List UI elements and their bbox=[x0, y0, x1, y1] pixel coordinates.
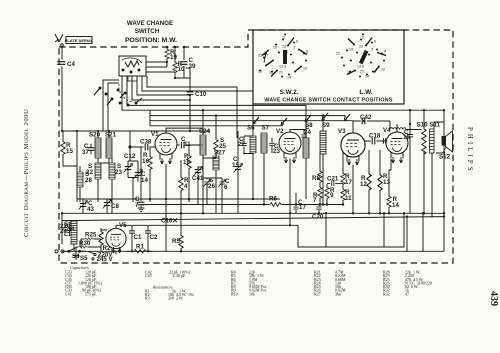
capacitor C22 bbox=[238, 136, 247, 155]
svg-text:S.W.2.: S.W.2. bbox=[280, 89, 299, 96]
coil S23 bbox=[109, 163, 122, 203]
capacitor C11 bbox=[177, 136, 191, 148]
capacitor C17 bbox=[293, 199, 306, 213]
wire fan L5 bbox=[127, 76, 306, 131]
wire fan L3 bbox=[137, 76, 190, 95]
resistor R1 bbox=[127, 244, 152, 254]
svg-text:S12: S12 bbox=[439, 154, 451, 161]
valve V3 bbox=[338, 121, 365, 165]
resistor R8 bbox=[312, 152, 322, 186]
valve V2 bbox=[276, 128, 306, 163]
resistor R20 bbox=[173, 47, 185, 78]
svg-text:21: 21 bbox=[360, 70, 364, 74]
resistor R25 bbox=[81, 232, 101, 241]
resistor R14 bbox=[387, 159, 400, 213]
wire bus y225.3 bbox=[116, 213, 404, 247]
resistor R9 bbox=[325, 184, 335, 205]
svg-text:23: 23 bbox=[115, 169, 122, 176]
variable capacitor C8 bbox=[103, 200, 120, 214]
svg-text:R32: R32 bbox=[383, 291, 390, 296]
node dots on coil bus bbox=[61, 130, 191, 132]
svg-text:16: 16 bbox=[142, 158, 149, 165]
svg-text:S20: S20 bbox=[89, 132, 101, 139]
svg-text:22: 22 bbox=[238, 141, 245, 148]
resistor R19 bbox=[165, 47, 178, 62]
coil S22 bbox=[86, 163, 101, 202]
variable capacitor C15 bbox=[232, 131, 243, 178]
svg-text:C38: C38 bbox=[140, 139, 152, 146]
wire fan L7 bbox=[150, 110, 345, 118]
svg-text:18: 18 bbox=[183, 159, 190, 166]
svg-text:8: 8 bbox=[306, 50, 308, 54]
svg-text:37: 37 bbox=[82, 149, 89, 156]
wire bus y199 bbox=[77, 198, 280, 200]
wire bottom loop bbox=[326, 213, 423, 251]
svg-text:SWITCH: SWITCH bbox=[135, 28, 160, 35]
wire tube columns bbox=[83, 148, 432, 255]
wire heater V5 bbox=[61, 236, 63, 244]
svg-text:S21: S21 bbox=[105, 132, 117, 139]
svg-text:V4: V4 bbox=[383, 127, 391, 134]
capacitor C16 bbox=[161, 218, 177, 225]
capacitor C7 bbox=[135, 147, 144, 211]
svg-text:4: 4 bbox=[184, 183, 188, 190]
svg-text:13: 13 bbox=[279, 65, 283, 69]
resistor R7 bbox=[313, 186, 322, 205]
capacitor C10 bbox=[187, 68, 207, 131]
capacitor C39 bbox=[181, 47, 196, 71]
svg-text:C21: C21 bbox=[327, 176, 339, 183]
resistor R6 bbox=[258, 196, 288, 207]
resistor R30 bbox=[76, 240, 101, 248]
svg-text:S5: S5 bbox=[80, 255, 88, 262]
L.W. contact pattern bbox=[336, 34, 386, 79]
svg-text:C2: C2 bbox=[150, 234, 158, 241]
wire HT top bus bbox=[150, 110, 444, 129]
svg-text:S9: S9 bbox=[322, 122, 330, 129]
svg-text:R5: R5 bbox=[172, 238, 180, 245]
capacitor C18 bbox=[365, 133, 387, 145]
svg-text:C1: C1 bbox=[134, 234, 142, 241]
svg-text:18: 18 bbox=[347, 71, 351, 75]
svg-text:17: 17 bbox=[299, 204, 306, 211]
dashed page border bbox=[59, 30, 453, 263]
coil S9 bbox=[320, 122, 330, 168]
coil S24 bbox=[199, 128, 211, 167]
resistor R5 bbox=[172, 213, 183, 252]
svg-text:WAVE CHANGE SWITCH CONTACT POS: WAVE CHANGE SWITCH CONTACT POSITIONS bbox=[264, 98, 392, 104]
svg-text:WAVE CHANGE: WAVE CHANGE bbox=[127, 20, 173, 27]
wire fan L1 bbox=[147, 76, 237, 138]
svg-text:V3: V3 bbox=[338, 128, 346, 135]
trimmer S26 bbox=[203, 177, 215, 190]
capacitor C38 bbox=[129, 139, 155, 151]
svg-text:22: 22 bbox=[258, 54, 262, 58]
svg-text:3: 3 bbox=[293, 46, 295, 50]
coil S7 bbox=[261, 125, 270, 163]
svg-text:28: 28 bbox=[85, 177, 92, 184]
svg-text:V2: V2 bbox=[276, 128, 284, 135]
coil S27 bbox=[213, 150, 226, 179]
mains plug bbox=[55, 250, 68, 253]
svg-text:R25: R25 bbox=[85, 232, 97, 239]
resistor R4 bbox=[179, 160, 189, 213]
svg-text:23: 23 bbox=[282, 45, 286, 49]
capacitor C20 bbox=[312, 205, 324, 221]
speaker bbox=[439, 131, 453, 161]
svg-text:S10: S10 bbox=[417, 122, 429, 129]
svg-text:S7: S7 bbox=[262, 125, 270, 132]
resistor R2 bbox=[99, 228, 111, 252]
svg-text:8: 8 bbox=[384, 50, 386, 54]
svg-text:9: 9 bbox=[284, 65, 286, 69]
svg-text:S8: S8 bbox=[305, 122, 313, 129]
svg-text:L.W.: L.W. bbox=[359, 89, 372, 96]
variable capacitor C41 bbox=[192, 167, 204, 183]
svg-text:2: 2 bbox=[362, 36, 364, 40]
svg-text:POSITION: M.W.: POSITION: M.W. bbox=[125, 37, 177, 44]
wire V1 anode region bbox=[166, 128, 222, 190]
svg-text:23: 23 bbox=[273, 148, 280, 155]
variable capacitor C43 bbox=[79, 200, 95, 214]
svg-text:10: 10 bbox=[381, 68, 385, 72]
svg-text:19: 19 bbox=[349, 48, 353, 52]
switch wafer contacts lower bbox=[94, 84, 142, 106]
svg-text:C43: C43 bbox=[145, 273, 152, 278]
svg-text:10: 10 bbox=[303, 67, 307, 71]
resistor S25 bbox=[214, 131, 227, 158]
svg-text:S11: S11 bbox=[430, 122, 441, 129]
capacitor C42 bbox=[353, 114, 390, 129]
svg-text:23: 23 bbox=[359, 45, 363, 49]
grid cap C26 bbox=[382, 138, 387, 143]
svg-text:7: 7 bbox=[313, 197, 317, 204]
svg-text:C20: C20 bbox=[312, 214, 324, 221]
valve V4 bbox=[383, 124, 408, 163]
coil S20 bbox=[89, 131, 101, 163]
wire fan L4 bbox=[132, 76, 190, 100]
wire right rail bbox=[443, 110, 445, 252]
capacitor C24 bbox=[301, 124, 311, 138]
wire fan L2 bbox=[142, 76, 253, 131]
mains switch S4 bbox=[68, 247, 86, 260]
wire aerial down bbox=[61, 46, 63, 131]
svg-text:15: 15 bbox=[66, 148, 73, 155]
voltage selector bbox=[76, 239, 114, 263]
svg-text:15: 15 bbox=[258, 70, 262, 74]
svg-text:24: 24 bbox=[304, 129, 311, 136]
S.W.2 contact pattern bbox=[258, 34, 308, 80]
capacitor C21 bbox=[327, 176, 343, 187]
wire fan L6 (HT bus) bbox=[122, 76, 150, 110]
svg-text:C4: C4 bbox=[67, 61, 75, 68]
wire bus y204.5 bbox=[141, 204, 343, 206]
wire speaker connections bbox=[434, 122, 444, 153]
svg-text:PHILIPS: PHILIPS bbox=[466, 127, 473, 174]
mains choke L1 bbox=[63, 220, 77, 251]
variable capacitor C12 bbox=[124, 153, 136, 178]
coil S8 bbox=[303, 122, 313, 168]
title WAVE CHANGE SWITCH POSITION M.W. bbox=[125, 20, 177, 44]
aerial symbol bbox=[55, 34, 63, 46]
svg-text:3: 3 bbox=[371, 48, 373, 52]
svg-text:Circuit Diagram—Philips Model: Circuit Diagram—Philips Model 209U bbox=[23, 109, 30, 237]
svg-text:17: 17 bbox=[345, 179, 352, 186]
switch arrow K7 bbox=[322, 113, 328, 120]
coil S28 bbox=[77, 166, 92, 202]
svg-text:36k: 36k bbox=[335, 291, 341, 296]
fuse S5 bbox=[73, 251, 89, 262]
wave change switch contact positions box bbox=[253, 30, 404, 104]
switch S1 body bbox=[119, 56, 146, 81]
svg-text:1: 1 bbox=[364, 50, 366, 54]
capacitor C23 bbox=[269, 138, 280, 155]
svg-text:R10: R10 bbox=[231, 291, 238, 296]
svg-text:C16: C16 bbox=[161, 218, 173, 225]
node dots switch top bbox=[166, 46, 185, 79]
svg-text:14: 14 bbox=[287, 76, 291, 80]
svg-text:R8: R8 bbox=[312, 175, 320, 182]
svg-text:V1: V1 bbox=[151, 131, 159, 138]
capacitor C1 bbox=[129, 226, 142, 252]
resistor R11 bbox=[341, 188, 352, 205]
switch arrow K5 bbox=[253, 117, 259, 124]
svg-text:PLATE AERIAL: PLATE AERIAL bbox=[65, 38, 94, 43]
svg-text:11: 11 bbox=[184, 141, 191, 148]
wire links left coils bbox=[63, 131, 138, 202]
valve V5 rectifier bbox=[106, 222, 127, 253]
svg-text:19: 19 bbox=[403, 134, 410, 141]
wire switch left drops bbox=[103, 80, 119, 131]
svg-text:11: 11 bbox=[345, 195, 352, 202]
svg-text:9: 9 bbox=[362, 65, 364, 69]
svg-text:14: 14 bbox=[141, 177, 148, 184]
capacitor C19 bbox=[403, 124, 413, 148]
svg-text:12: 12 bbox=[360, 181, 367, 188]
component value table bbox=[65, 265, 432, 300]
svg-text:S24: S24 bbox=[199, 128, 211, 135]
svg-text:6: 6 bbox=[224, 184, 228, 191]
wire fan L8 bbox=[150, 116, 353, 121]
switch arrow K8 bbox=[344, 114, 350, 121]
svg-text:2: 2 bbox=[283, 36, 285, 40]
output transformer S10 bbox=[417, 122, 429, 155]
svg-text:C18: C18 bbox=[369, 133, 381, 140]
wire top coil bus bbox=[62, 130, 210, 132]
svg-text:R1: R1 bbox=[136, 244, 144, 251]
wire bottom rail y251.3 bbox=[62, 250, 444, 252]
svg-text:C41: C41 bbox=[65, 291, 72, 296]
svg-text:1: 1 bbox=[286, 50, 288, 54]
svg-text:Resistances.: Resistances. bbox=[152, 285, 174, 290]
variable capacitor C14 bbox=[134, 170, 149, 185]
svg-text:439: 439 bbox=[488, 291, 499, 306]
svg-text:C10: C10 bbox=[195, 91, 207, 98]
svg-text:C42: C42 bbox=[360, 114, 372, 121]
resistor R13 bbox=[378, 150, 391, 213]
wire bus y220.3 bbox=[62, 217, 444, 221]
wire fan L9 bbox=[150, 121, 283, 126]
wire C38 column bbox=[129, 131, 131, 161]
wire bus y213.3 bbox=[62, 213, 444, 243]
svg-text:22: 22 bbox=[336, 52, 340, 56]
coil S21 bbox=[105, 131, 117, 163]
svg-text:9: 9 bbox=[330, 192, 334, 199]
svg-text:6: 6 bbox=[296, 40, 298, 44]
svg-text:47: 47 bbox=[405, 291, 409, 296]
svg-text:6: 6 bbox=[374, 40, 376, 44]
svg-text:R27: R27 bbox=[314, 291, 321, 296]
svg-text:26: 26 bbox=[208, 183, 215, 190]
svg-text:200 2 W.: 200 2 W. bbox=[168, 296, 183, 301]
svg-text:R3: R3 bbox=[145, 296, 150, 301]
switch arrow K6 bbox=[305, 115, 311, 122]
svg-text:3–30 pF.: 3–30 pF. bbox=[172, 273, 186, 278]
grid coil row bbox=[390, 128, 421, 132]
resistor R15 bbox=[61, 131, 77, 166]
switch arrow K4 bbox=[281, 118, 287, 125]
output transformer S11 bbox=[430, 122, 441, 154]
svg-text:10k: 10k bbox=[249, 291, 255, 296]
svg-text:S6: S6 bbox=[247, 125, 255, 132]
trimmer C6 bbox=[218, 178, 230, 191]
capacitor C37 bbox=[82, 143, 94, 156]
coil S6 bbox=[244, 125, 256, 162]
PLATE AERIAL label box bbox=[65, 37, 94, 44]
svg-text:14: 14 bbox=[392, 202, 399, 209]
svg-text:18: 18 bbox=[269, 71, 273, 75]
wire coil risers bbox=[203, 110, 323, 138]
svg-text:19: 19 bbox=[273, 46, 277, 50]
svg-text:14: 14 bbox=[365, 75, 369, 79]
label 220 245 V top bbox=[60, 223, 73, 244]
valve V1 bbox=[151, 131, 177, 164]
svg-text:13: 13 bbox=[357, 65, 361, 69]
capacitor C4 bbox=[57, 61, 76, 68]
resistor R17 bbox=[341, 152, 353, 188]
svg-text:19: 19 bbox=[170, 54, 177, 61]
svg-text:21: 21 bbox=[279, 71, 283, 75]
resistor R16 bbox=[142, 147, 152, 202]
svg-text:43: 43 bbox=[87, 206, 94, 213]
resistor R12 bbox=[360, 150, 371, 213]
capacitor C2 bbox=[145, 226, 158, 252]
svg-text:575 pF.: 575 pF. bbox=[85, 291, 97, 296]
wire switch to R19 R20 C39 bbox=[146, 62, 190, 78]
resistor R18 bbox=[183, 145, 191, 202]
svg-text:245 V: 245 V bbox=[97, 256, 114, 263]
